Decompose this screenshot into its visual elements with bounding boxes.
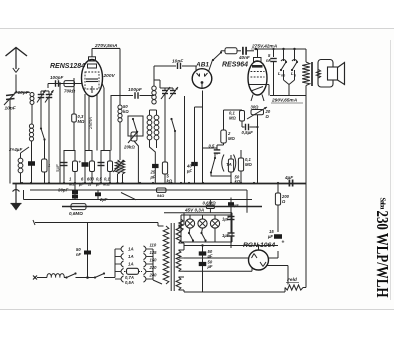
- lamp circuit bottom: [181, 241, 232, 243]
- mains switch 1: [64, 277, 67, 279]
- svg-text:RES964: RES964: [222, 62, 248, 69]
- svg-text:4µF: 4µF: [284, 175, 293, 180]
- wire L2 to L3: [31, 141, 33, 158]
- tube RES964 top cap: [254, 58, 262, 62]
- capacitor 0,5µF (coupling): [245, 124, 247, 131]
- wire AB1 cathode down: [202, 91, 204, 184]
- tube RES964 envelope: [248, 61, 267, 95]
- capacitor heater bypass: [95, 192, 101, 196]
- capacitor 10pF (to AB1): [177, 63, 179, 69]
- wire gang tops: [40, 91, 42, 95]
- tube RGN1064 envelope: [249, 250, 269, 270]
- wire grid node down: [59, 84, 61, 184]
- svg-text:110: 110: [150, 243, 157, 248]
- svg-text:MΩ: MΩ: [245, 162, 252, 167]
- wire L1 bottom: [31, 105, 33, 125]
- svg-text:+: +: [79, 160, 82, 165]
- wire HV to caps: [184, 245, 278, 247]
- variable capacitor C1 (tuning): [38, 94, 45, 96]
- junction mains: [86, 276, 89, 279]
- resistor 1kΩ (left): [42, 159, 48, 172]
- antenna: [6, 48, 28, 57]
- svg-text:Saba: Saba: [379, 198, 388, 210]
- capacitor 4µF (rail): [288, 180, 290, 187]
- tube RGN1064 anodes: [252, 254, 255, 259]
- switch S3 (AB1 anode): [212, 59, 214, 61]
- potentiometer 20kΩ: [131, 132, 137, 141]
- wire hum pot down: [257, 115, 259, 183]
- tube RES964 anode plate: [252, 65, 263, 68]
- svg-text:200V: 200V: [103, 73, 116, 79]
- tube RES964 grid: [251, 71, 265, 73]
- resistor 6000Ω: [90, 161, 95, 172]
- wire rect to field: [266, 265, 288, 267]
- svg-text:µF: µF: [207, 254, 213, 259]
- svg-text:2×4µF: 2×4µF: [8, 147, 22, 152]
- output transformer primary: [305, 49, 307, 62]
- tube1 pin wires: [84, 94, 86, 151]
- wire right rail down: [305, 96, 307, 288]
- wire HT rail: [254, 48, 306, 50]
- svg-text:nb: nb: [281, 74, 285, 78]
- capacitor 5nF (tone): [273, 49, 275, 57]
- svg-text:100pF: 100pF: [50, 75, 63, 80]
- tube RGN1064 leads: [258, 246, 260, 251]
- svg-text:0,5A: 0,5A: [125, 280, 134, 285]
- heater rail 1: [30, 189, 247, 191]
- capacitor 1µF (b): [228, 216, 235, 218]
- wire pot down: [134, 141, 138, 183]
- wire padder1 down: [164, 94, 166, 101]
- wire y66 to AB1: [154, 65, 176, 67]
- tube RENS1284 cathode: [91, 86, 93, 93]
- output transformer core: [311, 62, 313, 86]
- wire HV mid: [184, 257, 249, 259]
- resistor 5kΩ: [164, 100, 166, 162]
- svg-text:2µF: 2µF: [99, 197, 108, 202]
- tube AB1 envelope: [192, 69, 212, 89]
- svg-text:nF: nF: [76, 252, 82, 257]
- variable capacitor (padder 1): [162, 90, 168, 92]
- svg-text:30Ω: 30Ω: [251, 105, 260, 110]
- tube RENS1284 envelope: [82, 60, 103, 97]
- svg-text:µF: µF: [207, 264, 213, 269]
- capacitor 3µF: [228, 202, 234, 206]
- wire bottom return: [184, 291, 285, 293]
- tube RES964 base: [251, 95, 253, 102]
- wire C2 down: [48, 98, 50, 184]
- wire cap to AB1 grid: [182, 65, 196, 67]
- ground symbol: [15, 184, 17, 205]
- wire L3 bottom: [20, 173, 22, 184]
- wave band switch S1: [40, 127, 42, 129]
- wire x184 vertical: [184, 96, 186, 183]
- resistor 200Ω: [277, 183, 279, 193]
- lamp switch 1: [188, 232, 190, 234]
- choke Lnb: [283, 49, 285, 61]
- dial lamp 2: [198, 219, 207, 228]
- bus junction dots: [21, 182, 23, 184]
- field coil Feld: [285, 285, 303, 290]
- switch in shield box: [132, 118, 134, 120]
- wire res-grid: [241, 121, 243, 127]
- power transformer core: [170, 223, 172, 291]
- svg-text:0,5µF: 0,5µF: [242, 130, 254, 135]
- chassis bus (thick): [13, 183, 307, 185]
- svg-text:MΩ: MΩ: [228, 136, 235, 141]
- IF transformer coils: [147, 115, 152, 120]
- wire choke join: [284, 80, 295, 85]
- choke Lb: [294, 49, 296, 61]
- svg-text:100pF: 100pF: [128, 87, 143, 93]
- wire diagonal (pot tap to rail): [121, 193, 136, 200]
- capacitor 50nF (suppression): [84, 251, 91, 255]
- capacitor 25µF: [152, 164, 159, 168]
- svg-text:kΩ: kΩ: [123, 109, 129, 114]
- bridge 1 (row link): [64, 151, 75, 154]
- capacitor 6µF (electrolytic): [84, 153, 86, 184]
- wire L4 down: [119, 122, 121, 160]
- switch S4 (TA): [214, 157, 216, 159]
- speaker voice coil: [316, 70, 320, 79]
- wire 2M to TA: [223, 143, 225, 145]
- mains switch 2: [94, 276, 96, 278]
- wire 111 vertical: [110, 95, 112, 151]
- wire y95 horizontal: [111, 95, 133, 97]
- svg-text:40nF: 40nF: [238, 55, 250, 60]
- dial lamp 1: [185, 219, 194, 228]
- resistor 0,3MΩ: [72, 114, 77, 122]
- dial lamp 3: [210, 219, 219, 228]
- svg-text:µF: µF: [186, 169, 192, 174]
- wire grid line: [48, 83, 82, 85]
- wire HV low: [184, 270, 252, 272]
- svg-text:MΩ: MΩ: [78, 119, 85, 124]
- resistor 0,6MΩ (hum): [71, 204, 86, 210]
- heater rail 3 (thick): [62, 206, 262, 208]
- capacitor 30pF: [72, 190, 78, 194]
- wire 2MΩ drop: [223, 110, 225, 130]
- variable capacitor C2 (tuning): [46, 94, 53, 96]
- wire screen drop: [73, 78, 75, 114]
- svg-text:45V 0,3A: 45V 0,3A: [184, 208, 204, 213]
- coil L4 (HF choke): [118, 105, 122, 109]
- potentiometer (volume, double zigzag): [115, 160, 119, 174]
- svg-text:5µF: 5µF: [55, 164, 60, 172]
- tube RES964 grid lead: [249, 84, 269, 86]
- bridge 2 (row link): [85, 151, 92, 154]
- wire rect output: [269, 257, 279, 259]
- svg-text:1A: 1A: [128, 262, 134, 267]
- tube AB1 diode plates: [197, 73, 200, 77]
- resistor 0,1MΩ (RES): [240, 111, 245, 122]
- tube RENS1284 anode plate: [88, 64, 97, 68]
- wire IF right down: [156, 140, 158, 148]
- resistor 0,1MΩ: [108, 161, 113, 172]
- capacitor (left block): [31, 158, 33, 184]
- svg-text:0,6MΩ: 0,6MΩ: [203, 201, 217, 206]
- voltage selector left contacts: [121, 246, 124, 252]
- svg-text:0,6MΩ: 0,6MΩ: [69, 211, 83, 216]
- svg-text:RGN 1064: RGN 1064: [243, 242, 275, 249]
- wire L5 top: [153, 80, 155, 86]
- capacitor 100pF (coupling): [134, 92, 136, 99]
- heater rail 2: [24, 199, 253, 201]
- svg-text:290V,65mA: 290V,65mA: [271, 98, 298, 104]
- wire IF left down: [150, 140, 156, 183]
- svg-text:Feld: Feld: [287, 277, 298, 283]
- lamp switch 2: [200, 232, 202, 234]
- resistor (decoupling, horizontal): [225, 48, 237, 54]
- capacitor 1µF (c): [228, 232, 235, 234]
- wire antenna to coil: [16, 91, 30, 93]
- trimmer capacitor 10pF: [6, 95, 15, 96]
- tube RENS1284 grid (dashed): [85, 72, 99, 89]
- variable capacitor (padder 2): [170, 90, 176, 92]
- resistor 50kΩ: [228, 159, 233, 172]
- svg-text:10pF: 10pF: [18, 90, 30, 96]
- svg-text:Ω: Ω: [265, 114, 270, 119]
- secondary 45V winding: [176, 225, 181, 243]
- svg-text:MΩ: MΩ: [229, 116, 236, 121]
- tube RES964 cathode: [251, 87, 263, 92]
- wire S2 down: [174, 131, 176, 183]
- capacitor 50µF (1): [202, 246, 204, 293]
- capacitor 50µF (2): [199, 262, 207, 266]
- wire anode supply drop x120: [119, 49, 121, 106]
- wire selector column: [114, 249, 116, 278]
- capacitor 15µF: [274, 234, 282, 239]
- svg-text:b: b: [294, 74, 296, 78]
- svg-text:20kΩ: 20kΩ: [123, 145, 135, 150]
- capacitor 0,5µF: [100, 153, 102, 184]
- lamp circuit left: [180, 215, 182, 242]
- mains choke: [47, 274, 64, 278]
- capacitor 1µF (a): [230, 213, 232, 226]
- svg-text:µF: µF: [267, 234, 273, 239]
- svg-text:10pF: 10pF: [5, 106, 17, 112]
- wire AB1 return: [195, 106, 203, 108]
- svg-text:1A: 1A: [128, 254, 134, 259]
- wire AB1 anode up: [209, 60, 213, 72]
- resistor 0,1MΩ (AB1): [238, 158, 243, 171]
- svg-text:230 WLP/WLH: 230 WLP/WLH: [373, 211, 392, 298]
- coil L3: [18, 158, 23, 163]
- svg-text:1µF: 1µF: [222, 233, 230, 238]
- svg-text:nF: nF: [266, 58, 272, 63]
- svg-text:1A: 1A: [128, 247, 134, 252]
- wire anode to supply: [91, 49, 93, 54]
- svg-text:Ω: Ω: [281, 199, 286, 204]
- svg-text:+: +: [282, 240, 285, 246]
- secondary HV winding: [176, 250, 181, 271]
- secondary filament winding: [176, 277, 181, 290]
- wire cap to coil: [140, 95, 153, 97]
- wire C1 down: [40, 98, 42, 129]
- wire hum line: [35, 222, 158, 224]
- lamp ballast zigzag: [179, 219, 183, 231]
- resistor (ballast box): [157, 188, 167, 192]
- wire selector to primary: [152, 249, 154, 280]
- capacitor 40µF: [191, 162, 198, 166]
- switch S2: [170, 118, 172, 120]
- resistor 0,6MΩ (2): [206, 205, 214, 208]
- svg-text:10pF: 10pF: [172, 59, 184, 65]
- bridge 3 (row link): [101, 151, 110, 154]
- fuse: [127, 268, 139, 274]
- coil L5: [152, 86, 156, 90]
- resistor 2MΩ: [221, 130, 227, 143]
- mains lead stubs: [33, 276, 37, 280]
- capacitor 40nF: [242, 47, 244, 55]
- svg-text:µF: µF: [233, 204, 239, 208]
- wire grid coupling: [224, 109, 243, 111]
- svg-text:94Ω: 94Ω: [157, 194, 164, 198]
- wire suppression cap: [87, 223, 89, 278]
- tube RENS1284 screen: [86, 78, 98, 80]
- voltage selector right contacts: [144, 246, 147, 252]
- wire trimmer to bus: [9, 99, 11, 183]
- speaker magnet: [328, 67, 338, 80]
- power transformer primary: [157, 223, 159, 227]
- svg-text:1µF: 1µF: [222, 217, 230, 222]
- wire padder tops: [159, 80, 161, 88]
- svg-text:30pF: 30pF: [58, 188, 69, 193]
- svg-text:µF: µF: [150, 175, 156, 180]
- resistor 30Ω: [251, 110, 264, 115]
- svg-text:RENS1284: RENS1284: [50, 63, 85, 70]
- resistor 1MΩ: [73, 161, 78, 172]
- wire anode feed: [270, 95, 306, 97]
- lamp 3 wire: [214, 228, 216, 242]
- coil L1 (antenna): [30, 93, 34, 97]
- speaker frame: [318, 60, 333, 88]
- headphone jack TA: [222, 155, 224, 172]
- capacitor 0,5µF (TA): [214, 149, 221, 151]
- potentiometer 20Ω (hum): [247, 107, 267, 119]
- wire lamp feed: [164, 212, 232, 214]
- wire S3 to resistor: [220, 51, 222, 53]
- speaker cone: [338, 63, 345, 85]
- capacitor 5µF: [63, 153, 65, 184]
- coil L2 (oscillator): [29, 124, 33, 128]
- svg-text:AB1: AB1: [195, 62, 209, 69]
- capacitor 100pF (grid): [55, 80, 57, 87]
- wire screen resistor down: [73, 122, 75, 151]
- tube RES964 side lead: [268, 85, 270, 96]
- shield box (IF): [128, 116, 143, 136]
- tube RENS1284 top cap: [89, 57, 96, 61]
- resistor 70kΩ: [64, 81, 75, 87]
